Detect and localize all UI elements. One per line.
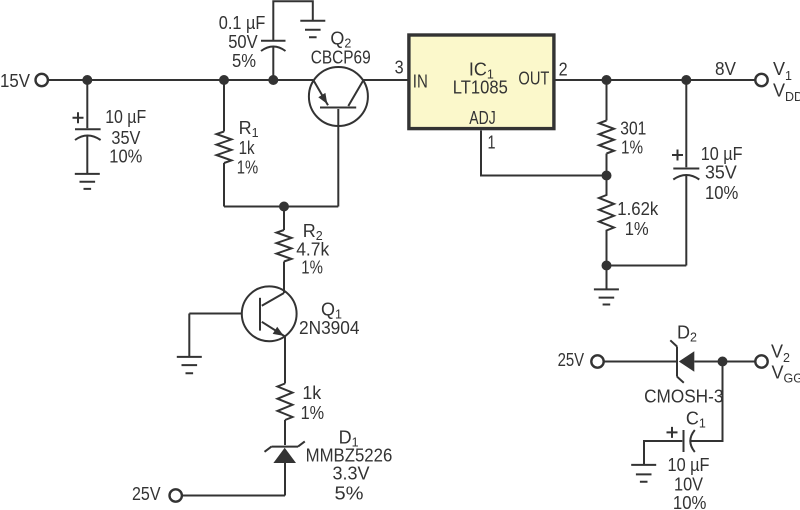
zener D1 cathode bar	[265, 441, 305, 451]
svg-text:10%: 10%	[109, 147, 142, 167]
capacitor C1 plus plate	[683, 430, 685, 452]
wire: 25V terminal to D2	[604, 361, 677, 363]
transistor Q2 collector line	[348, 80, 363, 106]
ground: top right of 0.1uF cap	[300, 21, 325, 38]
wire: D2 anode to V2 terminal	[694, 361, 755, 363]
wire: out node down to output cap	[685, 80, 687, 167]
svg-text:301: 301	[620, 119, 646, 139]
svg-text:5%: 5%	[232, 51, 256, 71]
ground: below divider	[594, 289, 619, 304]
svg-text:35V: 35V	[111, 128, 140, 148]
svg-text:3: 3	[395, 58, 404, 78]
svg-text:2N3904: 2N3904	[299, 318, 360, 338]
svg-text:CBCP69: CBCP69	[311, 48, 371, 68]
wire: Q1 emitter down to 1k	[284, 337, 286, 384]
terminal: 25V right	[591, 355, 603, 367]
wire: base lead down to ground	[188, 314, 190, 357]
op-amp: regulator IC1 LT1085 box	[409, 35, 554, 129]
svg-text:25V: 25V	[558, 350, 585, 370]
ground: below C1	[631, 465, 656, 482]
svg-text:5%: 5%	[335, 484, 364, 504]
wire: out node down to 301	[606, 80, 608, 121]
svg-text:50V: 50V	[228, 32, 257, 52]
node: junction at C1	[718, 357, 728, 367]
wire: input rail 15V to Q2 emitter	[48, 79, 313, 81]
terminal: V1 output	[755, 74, 767, 86]
ground: below input cap	[75, 174, 100, 189]
resistor 301 zigzag	[599, 121, 614, 154]
wire: 301 bottom to ADJ node	[606, 154, 608, 176]
transistor Q1 collector line	[262, 293, 284, 306]
capacitor: output 10uF plus plate	[673, 168, 699, 170]
svg-text:1%: 1%	[301, 403, 325, 423]
svg-text:3.3V: 3.3V	[333, 464, 370, 484]
transistor Q2 emitter arrow	[318, 93, 327, 104]
svg-text:VDD: VDD	[773, 81, 800, 104]
node: junction at 301 resistor top	[602, 75, 612, 85]
node: junction ADJ divider	[602, 171, 612, 181]
wire: R2 down from node	[283, 207, 285, 231]
svg-text:10%: 10%	[673, 493, 707, 510]
transistor Q1 emitter arrow	[273, 327, 284, 336]
svg-text:25V: 25V	[132, 484, 161, 504]
wire: rail down to R1	[223, 80, 225, 132]
svg-text:10V: 10V	[674, 475, 703, 495]
wire: D1 anode down to 25V rail	[284, 463, 286, 496]
svg-text:35V: 35V	[705, 162, 737, 182]
transistor Q2 emitter line	[313, 80, 328, 105]
wire: Q2 base lead down	[337, 109, 339, 207]
transistor Q1 emitter line	[262, 322, 285, 337]
wire: divider bottom to ground	[606, 266, 608, 290]
wire: rail up to 0.1uF cap	[272, 47, 274, 80]
svg-text:10%: 10%	[705, 183, 738, 203]
wire: 25V terminal to D1	[182, 495, 285, 497]
wire: ADJ pin down and right	[481, 131, 607, 176]
wire: IC OUT to output terminal	[554, 79, 755, 81]
node: junction at 0.1uF cap	[268, 75, 278, 85]
svg-text:10 µF: 10 µF	[701, 144, 743, 164]
svg-text:1: 1	[488, 133, 496, 153]
svg-text:1k: 1k	[239, 138, 256, 158]
svg-text:1k: 1k	[302, 383, 322, 403]
node: junction at input cap	[82, 75, 92, 85]
wire: divider bottom to output cap	[607, 265, 687, 267]
terminal: 15V input	[36, 74, 48, 86]
svg-text:VGG: VGG	[772, 363, 800, 386]
wire: input cap to ground	[86, 137, 88, 174]
svg-text:1%: 1%	[625, 219, 649, 239]
terminal: 25V bottom left	[170, 489, 182, 501]
plus sign: input cap polarity	[73, 112, 84, 123]
svg-text:LT1085: LT1085	[453, 78, 508, 98]
transistor Q1 base bar	[259, 298, 261, 331]
wire: horizontal node wire R1 to Q2 base	[224, 206, 338, 208]
ground: Q1 base	[177, 357, 202, 373]
svg-text:10 µF: 10 µF	[668, 455, 710, 475]
svg-text:MMBZ5226: MMBZ5226	[306, 446, 393, 466]
capacitor: output 10uF curved plate	[673, 175, 699, 180]
svg-text:OUT: OUT	[518, 69, 549, 89]
svg-text:10 µF: 10 µF	[105, 107, 146, 127]
svg-text:R1: R1	[239, 118, 259, 140]
resistor 1.62k zigzag	[599, 176, 614, 266]
svg-text:IN: IN	[413, 72, 428, 92]
capacitor: input 10uF curved plate	[75, 136, 101, 141]
node: junction at output cap top	[681, 75, 691, 85]
resistor R2 4.7k zigzag	[277, 230, 292, 262]
zener D1 triangle	[273, 448, 296, 463]
wire: 0.1uF cap up and over to ground	[273, 1, 313, 40]
svg-text:V1: V1	[773, 59, 792, 83]
wire: 1k bottom to D1	[284, 420, 286, 445]
plus sign: C1 polarity	[667, 427, 678, 438]
wire: output cap to bottom node	[685, 176, 687, 266]
capacitor: input 10uF plus plate	[75, 128, 101, 130]
svg-text:C1: C1	[686, 409, 706, 431]
zener D2 triangle	[679, 351, 695, 372]
wire: R2 bottom to Q1 collector	[283, 262, 285, 294]
svg-text:1%: 1%	[237, 158, 258, 178]
svg-text:15V: 15V	[0, 71, 30, 91]
capacitor C 0.1uF curved plate	[261, 47, 286, 52]
terminal: V2 output	[755, 355, 767, 367]
svg-text:D2: D2	[677, 323, 697, 345]
resistor R1 1k zigzag	[217, 132, 232, 164]
capacitor C1 curved plate	[690, 430, 695, 452]
node: junction at R2 top	[279, 202, 289, 212]
transistor Q2 circle	[309, 67, 368, 126]
svg-text:0.1 µF: 0.1 µF	[219, 13, 266, 33]
wire: Q2 collector to IC IN pin	[364, 79, 408, 81]
wire: Q1 base lead	[189, 313, 242, 315]
svg-text:1%: 1%	[621, 138, 643, 158]
svg-text:8V: 8V	[715, 59, 736, 79]
svg-text:ADJ: ADJ	[469, 108, 495, 128]
svg-text:V2: V2	[771, 342, 790, 366]
node: junction divider bottom	[602, 261, 612, 271]
svg-text:CMOSH-3: CMOSH-3	[644, 386, 723, 406]
transistor Q2 base bar	[320, 107, 356, 109]
svg-text:1%: 1%	[301, 258, 323, 278]
wire: rail down to input cap	[86, 80, 88, 128]
zener D2 cathode bar	[670, 340, 684, 383]
svg-text:1.62k: 1.62k	[617, 199, 659, 219]
resistor 1k zigzag	[278, 384, 293, 421]
wire: R1 bottom to base node	[223, 163, 225, 207]
node: junction at R1 top	[219, 75, 229, 85]
plus sign: output cap polarity	[672, 150, 683, 161]
wire: C1 left to ground	[644, 441, 682, 465]
svg-text:2: 2	[559, 60, 568, 80]
wire: C1 node down and left	[691, 362, 723, 442]
capacitor C 0.1uF straight plate	[261, 40, 286, 42]
transistor Q1 circle	[242, 286, 297, 341]
svg-text:4.7k: 4.7k	[296, 240, 330, 260]
